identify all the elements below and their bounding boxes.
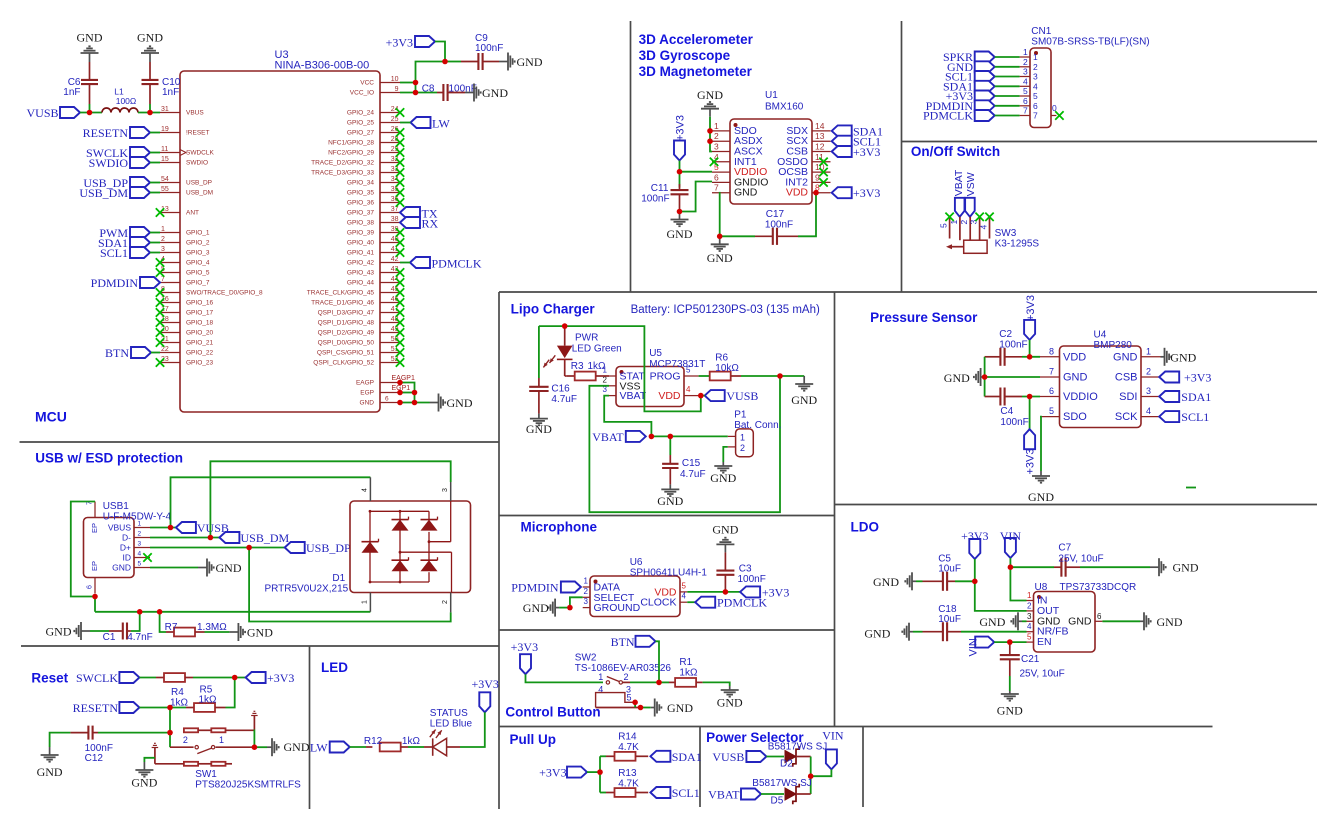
junction VDD node (698, 393, 704, 399)
wire C1 drop (131, 612, 140, 631)
U4 pin 5 SDO (1040, 406, 1087, 423)
resistor R3 (567, 361, 609, 380)
junction +3V3/C5 (972, 579, 978, 585)
svg-text:+3V3: +3V3 (1025, 295, 1037, 321)
svg-text:GPIO_18: GPIO_18 (186, 320, 213, 327)
svg-text:VBUS: VBUS (108, 522, 131, 532)
U1 pin 13 SCX (786, 131, 830, 147)
junction U1 pin2 (707, 138, 713, 144)
U5 pin 3 VBAT (603, 385, 647, 402)
label battery info (631, 304, 820, 316)
no-connect X on USB1 ID (143, 553, 151, 561)
no-connect X on U3 GPIO_35 (396, 188, 404, 196)
svg-text:TRACE_CLK/GPIO_45: TRACE_CLK/GPIO_45 (307, 290, 375, 297)
svg-text:GPIO_17: GPIO_17 (186, 310, 213, 317)
svg-text:SWDIO: SWDIO (89, 156, 129, 170)
ground symbol below C12 (37, 747, 63, 779)
wire C15 drop (669, 436, 671, 455)
label CN1 reference (1031, 26, 1149, 48)
wire VBAT node to P1 (651, 435, 727, 437)
port VUSB (USB section) (176, 521, 229, 535)
svg-text:C17: C17 (766, 209, 785, 220)
label SW1 reference (195, 769, 301, 791)
port LW (LED) (310, 741, 350, 755)
svg-text:GPIO_7: GPIO_7 (186, 280, 210, 287)
D1 internal junction dots (369, 510, 431, 583)
svg-text:31: 31 (161, 106, 169, 113)
wire C5 to GND (916, 580, 923, 582)
wire +3V3 down to R5 (226, 678, 235, 708)
U3 pin 26 GPIO_27 (347, 126, 400, 137)
wire EAGP to GND bus (400, 383, 415, 403)
svg-text:Pull Up: Pull Up (510, 732, 557, 747)
svg-text:Bat. Conn.: Bat. Conn. (734, 420, 781, 431)
svg-text:B5817WS SJ: B5817WS SJ (768, 742, 827, 753)
ground symbol at U3 GND (430, 394, 473, 412)
no-connect X on U3 GPIO_17 (156, 308, 164, 316)
junction +3V3/R5 node (232, 675, 238, 681)
U3 pin 37 GPIO_37 (347, 206, 400, 217)
border Microphone bottom (499, 629, 835, 631)
svg-text:1: 1 (714, 121, 719, 131)
SW3 pin 1 lead (949, 217, 960, 240)
U3 pin 33 TRACE_D3/GPIO_33 (311, 166, 400, 177)
svg-text:NFC2/GPIO_29: NFC2/GPIO_29 (328, 150, 374, 157)
no-connect X on SW3 pin5 (945, 213, 953, 221)
svg-text:U6: U6 (630, 557, 643, 568)
U3 pin 16 GPIO_16 (160, 296, 213, 307)
svg-text:VIN: VIN (967, 638, 979, 656)
wire C17 to VDD branch (798, 193, 816, 237)
port VUSB (26, 106, 80, 120)
svg-text:SCL1: SCL1 (672, 786, 700, 800)
svg-text:8: 8 (1049, 346, 1054, 356)
section title Pull Up (510, 732, 557, 747)
U3 pin 28 NFC1/GPIO_28 (328, 136, 400, 147)
svg-text:R4: R4 (171, 687, 184, 698)
port SDA1 at U1 SDX (832, 124, 883, 138)
CN1 mount pin 0 (1051, 103, 1057, 116)
svg-text:QSPI_D3/GPIO_47: QSPI_D3/GPIO_47 (318, 310, 375, 317)
svg-text:5: 5 (626, 693, 631, 703)
svg-text:+3V3: +3V3 (675, 115, 687, 141)
SW1 pole contacts and lever (195, 746, 215, 754)
wire GND pin to GND symbol (400, 402, 430, 404)
svg-text:GND: GND (944, 371, 970, 385)
label SW1 pin 1 (219, 735, 224, 745)
svg-text:C12: C12 (85, 753, 104, 764)
port BTN (MCU) (105, 346, 151, 360)
svg-text:GND: GND (447, 396, 473, 410)
label D1 reference (264, 573, 348, 595)
svg-text:Reset: Reset (31, 671, 68, 686)
junction LED anode (562, 323, 568, 329)
wire +3V3 to LED (460, 712, 485, 747)
U3 pin 36 GPIO_36 (347, 196, 400, 207)
junction D- node (208, 535, 214, 541)
section title LED (321, 660, 348, 675)
junction at EGP pin (397, 390, 403, 396)
no-connect X on U3 TRACE_D2 (396, 158, 404, 166)
svg-text:11: 11 (161, 146, 168, 153)
wire SWCLK (150, 152, 160, 154)
svg-text:GND: GND (1173, 561, 1199, 575)
U3 pin 49 QSPI_D2/GPIO_49 (318, 326, 400, 337)
svg-text:L1: L1 (114, 87, 124, 97)
svg-text:PDMCLK: PDMCLK (432, 257, 482, 271)
svg-text:LDO: LDO (851, 520, 880, 535)
wire VDDIO node down to C11 (679, 172, 681, 188)
svg-text:Pressure Sensor: Pressure Sensor (870, 310, 978, 325)
svg-text:USB1: USB1 (103, 501, 130, 512)
U1 pin 3 ASCX (712, 142, 763, 158)
U3 pin 46 TRACE_D1/GPIO_46 (311, 296, 400, 307)
wire PWM (150, 232, 160, 234)
capacitor C8 (422, 84, 477, 102)
U1 pin 11 OSDO (777, 152, 830, 168)
svg-text:GPIO_42: GPIO_42 (347, 260, 374, 267)
svg-text:6: 6 (1049, 386, 1054, 396)
svg-text:GND: GND (667, 227, 693, 241)
no-connect X on U3 GPIO_41 (396, 248, 404, 256)
capacitor C16 (529, 378, 577, 414)
svg-text:NINA-B306-00B-00: NINA-B306-00B-00 (275, 60, 370, 72)
svg-text:R7: R7 (165, 622, 178, 633)
junction mic gnd (567, 605, 573, 611)
svg-text:RESETN: RESETN (73, 701, 119, 715)
ground symbol below C11 (667, 212, 693, 242)
U1 pin 10 OCSB (778, 162, 830, 178)
port PDMCLK at CN1 pin 7 (923, 109, 995, 123)
svg-text:4: 4 (1023, 76, 1028, 86)
svg-text:LED Blue: LED Blue (430, 719, 473, 730)
wire RESETN (150, 132, 160, 134)
svg-text:GND: GND (1063, 372, 1088, 384)
no-connect X on U3 GPIO_27 (396, 128, 404, 136)
svg-text:ID: ID (123, 552, 132, 562)
SW2 contacts and lever (606, 677, 630, 685)
U6 pin1 marker dot (594, 580, 598, 584)
wire C12 node to cap (98, 732, 170, 734)
port VBAT (charger) (592, 430, 646, 444)
svg-text:GND: GND (979, 615, 1005, 629)
port +3V3 (MCU VCC) (386, 36, 435, 50)
svg-text:GND: GND (1068, 615, 1092, 627)
U4 pin 8 VDD (1040, 346, 1086, 363)
port +3V3 at CN1 pin 5 (946, 89, 995, 103)
svg-text:GPIO_35: GPIO_35 (347, 190, 374, 197)
label SW1 pin 2 (183, 735, 188, 745)
U3 pin 50 QSPI_D0/GPIO_50 (318, 336, 400, 347)
U6 pin 3 GROUND (583, 597, 641, 614)
port +3V3 at CSB (1159, 371, 1211, 385)
no-connect X on U3 GPIO_40 (396, 238, 404, 246)
USB1 pin 3 D+ (120, 541, 150, 553)
svg-text:4: 4 (682, 592, 687, 601)
wire VUSB top rail (539, 326, 701, 411)
svg-text:VUSB: VUSB (712, 750, 744, 764)
U3 pin 47 QSPI_D3/GPIO_47 (318, 306, 400, 317)
wire C4 to VDDIO node (1022, 396, 1040, 398)
connector P1 body (736, 429, 754, 457)
diode D5 B5817WS (785, 784, 811, 804)
svg-text:4: 4 (979, 225, 989, 230)
svg-text:3: 3 (138, 541, 142, 548)
port SWCLK (Reset) (76, 671, 139, 685)
wire VDDIO node to +3V3 up-port (1029, 397, 1031, 430)
svg-text:GND: GND (707, 251, 733, 265)
junction U1 pin1 (707, 128, 713, 134)
wire shield loop (71, 502, 95, 612)
U3 pin 9 VCC_IO (350, 86, 400, 97)
U8 pin 3 GND (1027, 612, 1061, 628)
port +3V3 at U1 CSB (832, 145, 881, 159)
label SW2 reference (575, 653, 672, 675)
ground symbol right of R7 (229, 623, 273, 641)
section title MCU (35, 409, 67, 425)
port SDA1 (pullup) (650, 750, 701, 764)
resistor R14 (606, 732, 648, 761)
U3 pin 22 GPIO_22 (160, 346, 213, 357)
svg-text:B5817WS SJ: B5817WS SJ (752, 778, 811, 789)
svg-text:GPIO_43: GPIO_43 (347, 270, 374, 277)
wire GND3 to symbol (1022, 620, 1027, 622)
wire CLOCK to PDMCLK (687, 601, 695, 603)
svg-text:GND: GND (523, 601, 549, 615)
U4 pin 4 SCK (1115, 406, 1161, 423)
ground symbol at U8 GND3 (979, 612, 1022, 630)
svg-text:SM07B-SRSS-TB(LF)(SN): SM07B-SRSS-TB(LF)(SN) (1031, 37, 1149, 48)
ground symbol at USB1 GND (198, 559, 242, 577)
U3 pin 41 GPIO_41 (347, 246, 400, 257)
svg-text:GND: GND (517, 55, 543, 69)
svg-text:1nF: 1nF (162, 87, 179, 98)
section title Lipo Charger (511, 302, 596, 317)
svg-text:GPIO_4: GPIO_4 (186, 260, 210, 267)
label D5 reference (771, 796, 784, 807)
IC U4 BMP280 body (1060, 346, 1142, 428)
LED D PWR green (543, 326, 572, 376)
capacitor C18 (923, 604, 962, 641)
svg-text:6: 6 (1033, 101, 1038, 111)
svg-text:GND: GND (284, 740, 310, 754)
svg-text:D-: D- (122, 532, 131, 542)
label PWR LED Green (572, 333, 622, 355)
svg-text:2: 2 (1027, 601, 1032, 610)
no-connect X on U3 GPIO_36 (396, 198, 404, 206)
wire C10 to node (149, 104, 151, 113)
D1 top-right diode (421, 517, 438, 531)
svg-text:Microphone: Microphone (521, 520, 598, 535)
U3 pin 17 GPIO_17 (160, 306, 213, 317)
svg-text:1: 1 (584, 577, 589, 586)
U4 pin 6 VDDIO (1040, 386, 1098, 403)
junction EGP bus (412, 390, 418, 396)
svg-text:GND: GND (997, 704, 1023, 718)
svg-text:10: 10 (391, 76, 399, 83)
wire C18 to GND (913, 631, 923, 633)
svg-text:Battery: ICP501230PS-03 (135 m: Battery: ICP501230PS-03 (135 mAh) (631, 304, 820, 316)
svg-text:PWR: PWR (575, 333, 598, 344)
svg-text:2: 2 (138, 531, 142, 538)
svg-text:5: 5 (939, 223, 949, 228)
label SW3 reference (995, 228, 1040, 250)
port PDMCLK (MCU) (410, 257, 482, 271)
wire SWCLK to R4 (139, 677, 156, 679)
wire RESETN down to C12 node (169, 708, 171, 733)
U1 pin 8 VDD (786, 183, 831, 199)
U6 pin 1 DATA (583, 577, 620, 594)
svg-text:GPIO_25: GPIO_25 (347, 120, 374, 127)
wire R4 to +3V3 (193, 677, 246, 679)
border MCU|3D-accel column divider (630, 21, 632, 292)
USB1 pin 2 D- (122, 531, 150, 543)
U3 pin 55 USB_DM (160, 186, 213, 197)
CN1 pin 3 (1020, 67, 1038, 82)
wire PROG to R6 (699, 375, 709, 377)
svg-text:GND: GND (791, 393, 817, 407)
U1 pin 2 ASDX (712, 131, 763, 147)
section title Power Selector (706, 730, 804, 745)
svg-text:4.7nF: 4.7nF (127, 632, 153, 643)
SW3 lever arrow (946, 244, 964, 249)
D1 internal rails (370, 501, 452, 593)
svg-text:22: 22 (161, 346, 169, 353)
U3 pin 31 VBUS (160, 106, 204, 117)
port VIN at EN (967, 637, 994, 657)
U1 pin 5 VDDIO (712, 162, 767, 178)
svg-text:10kΩ: 10kΩ (715, 363, 739, 374)
port SWCLK (86, 146, 150, 160)
D1 pin 4 (362, 477, 371, 501)
port VUSB (selector) (712, 750, 766, 764)
port SWDIO (89, 156, 150, 170)
SW1 lower contact plates (155, 762, 232, 766)
net label EAGP1 (392, 375, 415, 382)
wire VUSB to D2 (766, 756, 784, 758)
wire C2 to VDD node (1022, 356, 1030, 358)
svg-text:100nF: 100nF (738, 574, 766, 585)
U3 pin 35 GPIO_35 (347, 186, 400, 197)
svg-text:GND: GND (873, 575, 899, 589)
USB1 pin 7 shield EP (87, 501, 100, 533)
svg-text:GND: GND (77, 31, 103, 45)
no-connect X on U3 GPIO_16 (156, 298, 164, 306)
wire VBAT pin to port node (604, 396, 651, 437)
junction VUSB-C6 (87, 110, 93, 116)
svg-text:VBAT: VBAT (953, 169, 965, 196)
svg-text:100nF: 100nF (641, 194, 669, 205)
svg-text:LED: LED (321, 660, 348, 675)
svg-text:LED Green: LED Green (572, 344, 622, 355)
junction GND mid rail (982, 374, 988, 380)
svg-text:VBAT: VBAT (592, 430, 624, 444)
wire USB_DM (150, 192, 160, 194)
svg-text:1: 1 (1027, 591, 1032, 600)
svg-text:SWO/TRACE_D0/GPIO_8: SWO/TRACE_D0/GPIO_8 (186, 290, 263, 297)
wire SDA1 (150, 242, 160, 244)
section title LDO (851, 520, 880, 535)
border top row bottom (499, 291, 1317, 293)
no-connect X on SW3 pin4 (985, 213, 993, 221)
capacitor C10 (142, 62, 181, 104)
svg-text:D1: D1 (332, 573, 345, 584)
port SCL1 (pullup) (650, 786, 699, 800)
SW1 lower-left stub (152, 743, 159, 764)
U5 pin 4 VDD (658, 385, 698, 402)
svg-text:R6: R6 (715, 353, 728, 364)
junction R7 tap (157, 609, 163, 615)
wire gnd row (559, 607, 570, 609)
border MCU bottom (20, 441, 500, 443)
label SW2 pin 1 (598, 672, 603, 682)
resistor R6 (709, 353, 741, 381)
USB1 pin 5 GND (112, 561, 150, 573)
svg-text:3: 3 (442, 488, 449, 492)
U3 pin 23 GPIO_23 (160, 356, 213, 367)
svg-text:SWCLK: SWCLK (76, 671, 118, 685)
svg-text:PRTR5V0U2X,215: PRTR5V0U2X,215 (264, 584, 348, 595)
capacitor C6 (63, 62, 98, 104)
wire VIN to C7 (1010, 566, 1054, 568)
U3 pin 24 GPIO_24 (347, 106, 400, 117)
LED D status (blue) (424, 730, 460, 756)
ground symbol above C10 (137, 31, 163, 63)
svg-text:5: 5 (1027, 633, 1032, 642)
svg-text:U5: U5 (649, 348, 662, 359)
svg-text:C4: C4 (1000, 406, 1013, 417)
svg-text:C11: C11 (651, 183, 669, 194)
svg-text:4: 4 (138, 551, 142, 558)
svg-text:GROUND: GROUND (594, 602, 641, 614)
D1 bottom-right diode (421, 557, 438, 571)
svg-text:15: 15 (161, 156, 169, 163)
no-connect X on U3 GPIO_20 (156, 328, 164, 336)
junction EN/C21 (1007, 639, 1013, 645)
no-connect X on U3 NFC2 (396, 148, 404, 156)
junction VDDIO node U4 (1027, 394, 1033, 400)
svg-text:GND: GND (360, 400, 375, 407)
junction C3/VDD (723, 589, 729, 595)
wire U1 GND rail (710, 117, 712, 152)
svg-text:C15: C15 (682, 458, 701, 469)
svg-text:C7: C7 (1058, 543, 1071, 554)
no-connect X on U3 TRACE_CLK (396, 288, 404, 296)
wire VIN to IN pin (1010, 558, 1026, 601)
svg-text:GPIO_44: GPIO_44 (347, 280, 374, 287)
U5 pin 1 STAT (603, 366, 646, 383)
svg-text:GPIO_37: GPIO_37 (347, 210, 374, 217)
svg-text:4.7K: 4.7K (618, 742, 639, 753)
U3 pin 6 GND (360, 396, 400, 407)
svg-text:GPIO_39: GPIO_39 (347, 230, 374, 237)
svg-text:+3V3: +3V3 (1025, 449, 1037, 475)
svg-text:1: 1 (1033, 52, 1038, 62)
wire VCC node left-down to pins (400, 62, 445, 93)
junction GND bus (412, 400, 418, 406)
wire SDO to GND (1040, 417, 1041, 471)
junction VBAT node (649, 434, 655, 440)
junction C1 tap (137, 609, 143, 615)
wire VSS to bottom rail (589, 376, 780, 512)
junction VCC pin10 (413, 80, 419, 86)
no-connect X on U3 QSPI_D2 (396, 328, 404, 336)
svg-text:GPIO_22: GPIO_22 (186, 350, 213, 357)
wire VUSB to L1 (80, 112, 102, 114)
svg-text:SCL1: SCL1 (100, 246, 128, 260)
wire D+ to USB_DP (150, 547, 285, 549)
wire CN1 pin 3 (995, 76, 1020, 78)
